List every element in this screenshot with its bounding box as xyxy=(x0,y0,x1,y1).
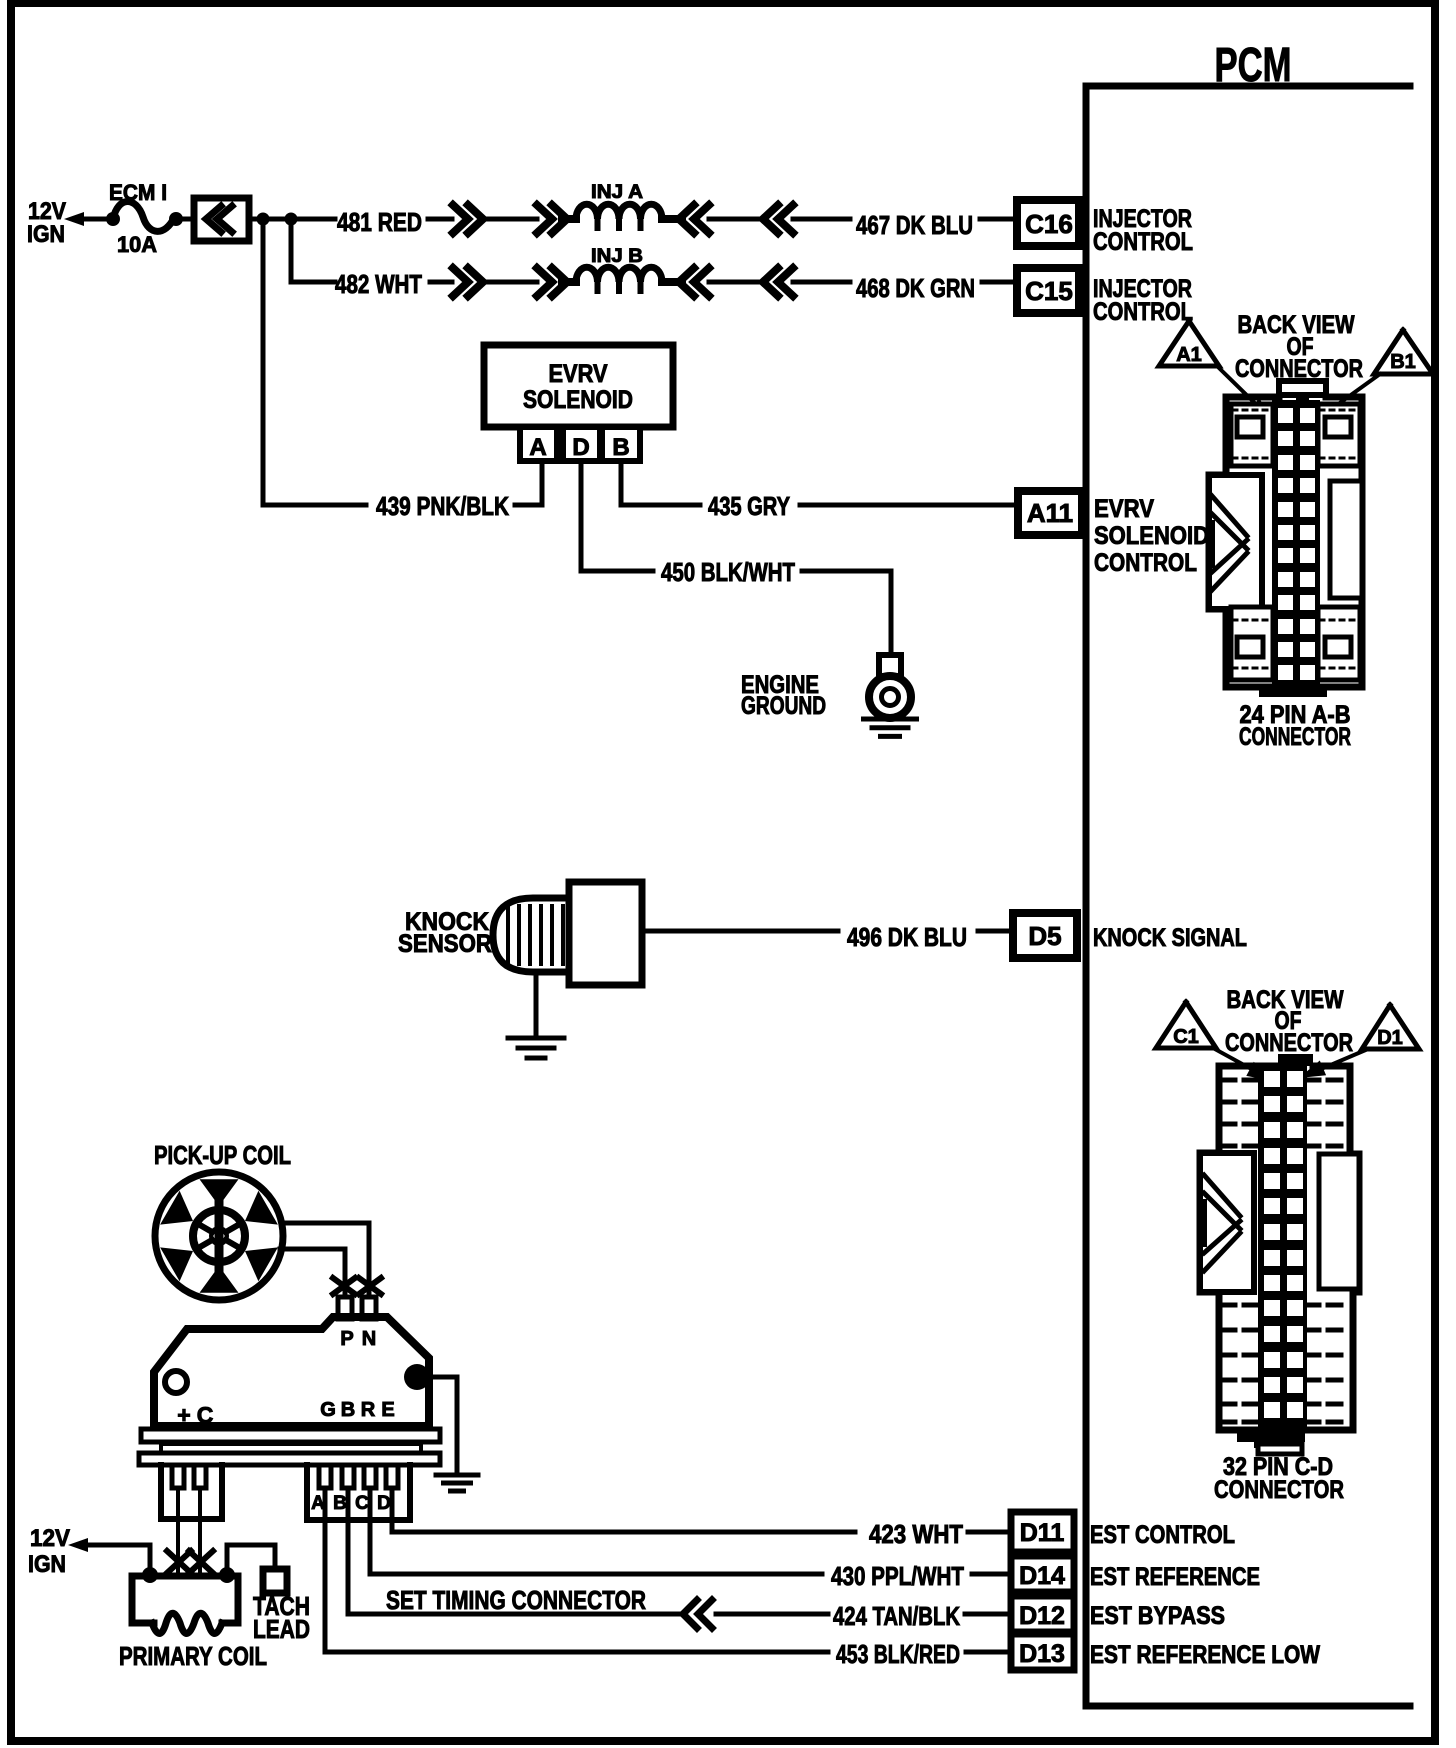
svg-text:CONTROL: CONTROL xyxy=(1093,298,1193,326)
svg-text:SOLENOID: SOLENOID xyxy=(1094,522,1209,550)
svg-text:C1: C1 xyxy=(1173,1026,1199,1048)
svg-text:A1: A1 xyxy=(1176,344,1202,366)
svg-text:430 PPL/WHT: 430 PPL/WHT xyxy=(831,1561,964,1591)
svg-text:PICK-UP COIL: PICK-UP COIL xyxy=(154,1140,291,1170)
svg-text:R: R xyxy=(361,1399,376,1421)
svg-text:10A: 10A xyxy=(117,232,157,257)
svg-text:EST BYPASS: EST BYPASS xyxy=(1090,1602,1225,1630)
svg-text:B: B xyxy=(612,434,629,461)
svg-text:C: C xyxy=(197,1402,214,1428)
svg-text:SENSOR: SENSOR xyxy=(398,930,492,958)
svg-text:PCM: PCM xyxy=(1215,39,1292,92)
svg-text:CONNECTOR: CONNECTOR xyxy=(1225,1029,1353,1057)
svg-text:B1: B1 xyxy=(1390,351,1416,373)
svg-text:435 GRY: 435 GRY xyxy=(708,491,790,521)
svg-text:C: C xyxy=(355,1493,369,1514)
svg-text:LEAD: LEAD xyxy=(253,1614,310,1644)
svg-text:E: E xyxy=(381,1399,394,1421)
svg-text:C15: C15 xyxy=(1025,276,1073,306)
svg-text:424 TAN/BLK: 424 TAN/BLK xyxy=(833,1601,960,1631)
svg-text:439 PNK/BLK: 439 PNK/BLK xyxy=(376,491,509,521)
svg-text:496 DK BLU: 496 DK BLU xyxy=(847,922,967,952)
svg-text:EST REFERENCE: EST REFERENCE xyxy=(1090,1563,1260,1591)
svg-text:EST CONTROL: EST CONTROL xyxy=(1090,1521,1235,1549)
svg-text:D12: D12 xyxy=(1019,1602,1065,1630)
svg-text:CONTROL: CONTROL xyxy=(1093,228,1193,256)
svg-text:A: A xyxy=(529,434,546,461)
svg-text:482 WHT: 482 WHT xyxy=(335,269,422,299)
svg-text:EST REFERENCE LOW: EST REFERENCE LOW xyxy=(1090,1641,1320,1669)
svg-text:G: G xyxy=(320,1399,336,1421)
svg-text:D13: D13 xyxy=(1019,1640,1065,1668)
svg-text:SET TIMING CONNECTOR: SET TIMING CONNECTOR xyxy=(386,1585,646,1615)
svg-text:B: B xyxy=(333,1493,347,1514)
svg-text:P: P xyxy=(340,1328,353,1350)
svg-text:B: B xyxy=(341,1399,355,1421)
svg-text:+: + xyxy=(177,1402,190,1428)
svg-text:467 DK BLU: 467 DK BLU xyxy=(856,210,973,240)
svg-text:A11: A11 xyxy=(1027,498,1073,528)
svg-text:D: D xyxy=(572,434,589,461)
svg-text:12V: 12V xyxy=(30,1525,70,1552)
svg-text:D5: D5 xyxy=(1028,921,1061,951)
svg-text:D14: D14 xyxy=(1019,1562,1065,1590)
svg-text:481 RED: 481 RED xyxy=(337,207,422,237)
svg-text:CONTROL: CONTROL xyxy=(1094,549,1197,577)
svg-text:N: N xyxy=(362,1328,376,1350)
svg-text:453 BLK/RED: 453 BLK/RED xyxy=(836,1639,960,1669)
svg-text:CONNECTOR: CONNECTOR xyxy=(1239,723,1351,751)
svg-text:PRIMARY COIL: PRIMARY COIL xyxy=(119,1641,267,1671)
svg-text:ECM I: ECM I xyxy=(109,180,167,205)
svg-text:450 BLK/WHT: 450 BLK/WHT xyxy=(661,557,795,587)
svg-text:INJ B: INJ B xyxy=(591,246,643,267)
svg-text:D: D xyxy=(377,1493,391,1514)
svg-text:EVRV: EVRV xyxy=(549,360,608,388)
svg-text:D1: D1 xyxy=(1377,1027,1403,1049)
svg-text:423 WHT: 423 WHT xyxy=(869,1519,963,1549)
svg-text:CONNECTOR: CONNECTOR xyxy=(1214,1476,1344,1504)
svg-text:SOLENOID: SOLENOID xyxy=(523,386,633,414)
svg-text:C16: C16 xyxy=(1025,209,1073,239)
svg-text:IGN: IGN xyxy=(27,221,65,248)
svg-text:GROUND: GROUND xyxy=(741,692,826,720)
svg-text:IGN: IGN xyxy=(28,1551,66,1578)
svg-text:D11: D11 xyxy=(1020,1519,1065,1547)
svg-text:EVRV: EVRV xyxy=(1094,495,1154,523)
svg-text:KNOCK SIGNAL: KNOCK SIGNAL xyxy=(1093,924,1247,952)
svg-text:468 DK GRN: 468 DK GRN xyxy=(856,273,975,303)
svg-text:INJ A: INJ A xyxy=(591,182,643,203)
